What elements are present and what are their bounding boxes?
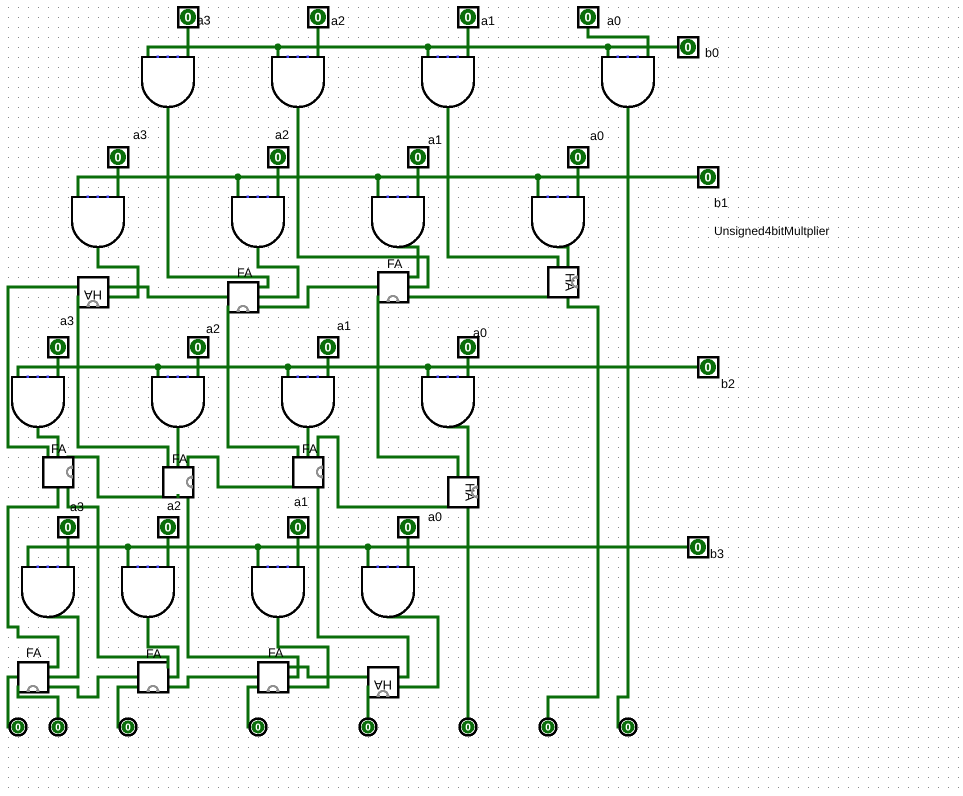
svg-text:0: 0 (275, 151, 282, 165)
svg-text:0: 0 (705, 171, 712, 185)
svg-text:b2: b2 (721, 377, 735, 391)
svg-text:a1: a1 (481, 14, 495, 28)
svg-text:a0: a0 (428, 510, 442, 524)
svg-text:a3: a3 (133, 128, 147, 142)
svg-text:Unsigned4bitMultplier: Unsigned4bitMultplier (714, 224, 829, 238)
svg-text:0: 0 (185, 11, 192, 25)
svg-text:a3: a3 (60, 314, 74, 328)
svg-text:FA: FA (302, 442, 318, 456)
svg-text:a3: a3 (70, 500, 84, 514)
svg-text:0: 0 (465, 11, 472, 25)
svg-text:a0: a0 (590, 129, 604, 143)
svg-text:a0: a0 (607, 14, 621, 28)
svg-text:0: 0 (115, 151, 122, 165)
svg-text:FA: FA (237, 266, 253, 280)
svg-text:0: 0 (195, 341, 202, 355)
svg-text:FA: FA (146, 647, 162, 661)
svg-text:a1: a1 (337, 319, 351, 333)
svg-text:0: 0 (465, 723, 471, 734)
svg-text:0: 0 (705, 361, 712, 375)
svg-text:FA: FA (172, 452, 188, 466)
svg-text:0: 0 (15, 723, 21, 734)
svg-text:FA: FA (387, 257, 403, 271)
svg-text:0: 0 (415, 151, 422, 165)
svg-text:a2: a2 (167, 499, 181, 513)
svg-text:a2: a2 (275, 128, 289, 142)
svg-text:0: 0 (295, 521, 302, 535)
svg-text:0: 0 (545, 723, 551, 734)
svg-text:a2: a2 (206, 322, 220, 336)
svg-text:FA: FA (268, 646, 284, 660)
svg-text:0: 0 (685, 41, 692, 55)
svg-text:b0: b0 (705, 46, 719, 60)
svg-text:HA: HA (463, 483, 478, 501)
svg-text:0: 0 (55, 723, 61, 734)
svg-text:0: 0 (165, 521, 172, 535)
svg-text:0: 0 (65, 521, 72, 535)
svg-text:a2: a2 (331, 14, 345, 28)
svg-text:a0: a0 (473, 326, 487, 340)
svg-text:0: 0 (405, 521, 412, 535)
svg-text:0: 0 (125, 723, 131, 734)
svg-text:0: 0 (575, 151, 582, 165)
svg-text:FA: FA (51, 442, 67, 456)
svg-text:a3: a3 (197, 14, 211, 28)
svg-text:0: 0 (365, 723, 371, 734)
svg-text:b1: b1 (714, 196, 728, 210)
svg-text:HA: HA (563, 273, 578, 291)
svg-text:a1: a1 (294, 495, 308, 509)
svg-text:b3: b3 (710, 547, 724, 561)
svg-text:0: 0 (625, 723, 631, 734)
svg-text:0: 0 (325, 341, 332, 355)
svg-text:0: 0 (585, 11, 592, 25)
svg-text:0: 0 (695, 541, 702, 555)
svg-text:a1: a1 (428, 133, 442, 147)
svg-text:0: 0 (315, 11, 322, 25)
svg-text:FA: FA (26, 646, 42, 660)
svg-text:0: 0 (55, 341, 62, 355)
svg-text:0: 0 (465, 341, 472, 355)
svg-text:0: 0 (255, 723, 261, 734)
